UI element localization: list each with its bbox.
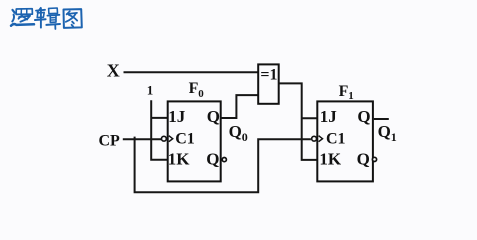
flip-flop F0 box — [168, 101, 221, 181]
svg-text:1J: 1J — [320, 107, 338, 126]
svg-text:Q: Q — [206, 149, 219, 168]
svg-text:1J: 1J — [168, 107, 186, 126]
char ji2 — [35, 8, 60, 29]
wire F1 Q output — [374, 118, 389, 120]
svg-text:CP: CP — [99, 132, 121, 149]
flip-flop F1 box — [317, 101, 373, 181]
svg-text:=1: =1 — [260, 66, 277, 83]
svg-text:C1: C1 — [326, 130, 346, 147]
wire X to XOR input 1 — [124, 71, 259, 73]
F1 Qbar bubble — [372, 157, 376, 161]
svg-text:1: 1 — [147, 83, 154, 98]
F0 Qbar bubble — [222, 158, 226, 162]
wire F0 Q to XOR input 2 — [221, 95, 258, 118]
svg-text:Q: Q — [357, 107, 370, 126]
F1 C1 inversion bubble — [312, 136, 317, 141]
svg-text:1K: 1K — [168, 149, 191, 168]
svg-text:1: 1 — [391, 130, 397, 144]
svg-text:C1: C1 — [175, 130, 195, 147]
wire XOR output to F1 1J and 1K — [279, 83, 317, 159]
char tu2 — [64, 9, 82, 28]
svg-text:Q: Q — [378, 122, 391, 141]
svg-text:1K: 1K — [319, 149, 342, 168]
wire constant 1 to 1J and 1K of F0 — [151, 100, 167, 160]
svg-text:F: F — [339, 83, 349, 100]
wire CP bottom run to F1 C1 — [135, 137, 311, 193]
F0 C1 inversion bubble — [162, 136, 167, 141]
svg-text:F: F — [189, 80, 199, 97]
svg-text:Q: Q — [229, 122, 242, 141]
svg-text:Q: Q — [207, 107, 220, 126]
svg-text:0: 0 — [242, 130, 248, 144]
F0 dynamic edge triangle — [169, 136, 173, 142]
wire CP to F0 C1 — [123, 138, 161, 140]
svg-text:0: 0 — [198, 88, 204, 100]
svg-text:Q: Q — [357, 149, 370, 168]
svg-text:X: X — [107, 60, 120, 80]
F1 dynamic edge triangle — [319, 136, 323, 142]
char luo2 — [11, 9, 34, 26]
svg-text:1: 1 — [348, 90, 354, 102]
title 逻辑图 — [11, 8, 82, 29]
XOR gate box — [258, 64, 279, 103]
